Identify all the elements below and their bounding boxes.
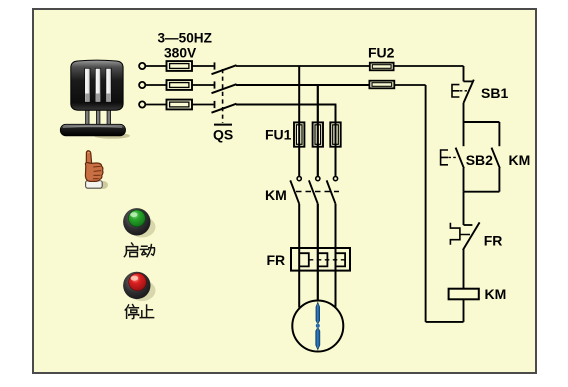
KM main contact 3 blade: [327, 180, 336, 203]
svg-text:QS: QS: [213, 126, 233, 142]
wire KM aux upper: [498, 122, 500, 146]
svg-text:KM: KM: [485, 286, 507, 302]
branch bottom wire: [464, 191, 500, 193]
fuse FU1-1: [294, 122, 304, 146]
KM main contact 1 blade: [290, 180, 299, 203]
wire coil to loop bottom: [463, 299, 465, 322]
wire L1 FU2 to control corner: [394, 65, 464, 67]
wire L2 FU2 to loop corner: [394, 84, 425, 86]
wire L1 fuse to QS: [192, 65, 214, 67]
label 停止 (stop): [125, 305, 153, 319]
fuse FU2 upper: [370, 63, 394, 71]
control wire: corner down to SB1: [463, 66, 465, 81]
wire FR to motor (right): [335, 271, 337, 307]
fuse FU1-3: [330, 122, 340, 146]
svg-text:FR: FR: [484, 233, 503, 249]
branch top wire: [464, 121, 500, 123]
SB1 push actuator: [452, 85, 459, 97]
SB2 blade: [456, 148, 464, 169]
wire SB1 to branch top: [463, 103, 465, 122]
KM linkage dashed line: [296, 191, 339, 193]
wire L2 fuse to QS: [192, 84, 214, 86]
phase L2 terminal: [139, 82, 145, 88]
phase L1 terminal: [139, 63, 145, 69]
wire drop U-phase to FU1: [298, 66, 300, 122]
FR contact blade: [463, 222, 480, 250]
svg-text:KM: KM: [509, 152, 531, 168]
wire L1 QS to FU2: [236, 65, 370, 67]
wire L1 to fuse: [145, 65, 166, 67]
wire KM2 to FR: [317, 204, 319, 248]
wire through FR element 1: [298, 248, 300, 271]
FR element 3 bump: [336, 253, 346, 266]
wire through FU1 fuse 1: [298, 122, 300, 176]
QS pole 1 blade: [212, 65, 237, 74]
FR element 1 bump: [299, 253, 309, 266]
SB1 actuator dashed link: [460, 90, 467, 92]
coil KM: [449, 289, 479, 300]
SB2 actuator dashed link: [448, 156, 456, 158]
loop return wire up to L2: [425, 85, 427, 322]
FR heater box: [291, 248, 350, 271]
svg-text:380V: 380V: [164, 46, 197, 61]
wire FR contact to coil: [463, 249, 465, 289]
start button (green): [123, 208, 155, 237]
FR element 2 bump: [318, 253, 328, 266]
svg-text:3—50HZ: 3—50HZ: [158, 31, 212, 46]
KM main contact 2 fixed point: [316, 177, 320, 181]
wire KM3 to FR: [335, 204, 337, 248]
knife-switch icon: [60, 60, 130, 139]
wire through FU1 fuse 3: [335, 122, 337, 176]
wire L3 fuse to QS: [192, 104, 214, 106]
SB2 push actuator: [441, 150, 448, 165]
wire L3 to fuse: [145, 104, 166, 106]
QS pole 1 fixed contact tick: [214, 62, 216, 69]
wire KM aux lower: [498, 168, 500, 192]
pointing-hand icon: [85, 151, 108, 189]
svg-text:FU1: FU1: [265, 127, 292, 143]
fuse FU2 lower: [369, 81, 394, 89]
wire FR to motor (left): [298, 271, 300, 308]
motor M: [292, 301, 343, 352]
KM main contact 3 fixed point: [333, 177, 337, 181]
SB1 fixed contact tick: [464, 80, 473, 82]
svg-text:FR: FR: [267, 252, 286, 268]
KM main contact 2 blade: [309, 180, 318, 203]
fuse L1 (supply): [167, 61, 193, 71]
QS pole 3 fixed contact tick: [214, 101, 216, 108]
FR linkage dashed line: [309, 259, 345, 261]
svg-text:KM: KM: [265, 187, 287, 203]
KM aux blade: [492, 148, 500, 169]
wire drop W-phase to FU1: [335, 105, 337, 123]
wire L2 QS to FU2: [236, 84, 369, 86]
wire branch bottom to FR contact: [463, 192, 465, 225]
wire KM1 to FR: [298, 204, 300, 248]
svg-text:SB2: SB2: [466, 152, 493, 168]
wire L3 QS to drop: [236, 104, 336, 106]
stop button (red): [123, 272, 155, 301]
KM main contact 1 fixed point: [297, 177, 301, 181]
wire drop V-phase to FU1: [317, 85, 319, 122]
fuse L2 (supply): [167, 80, 193, 90]
FR contact fixed tick: [464, 224, 473, 226]
wire SB2 to branch bottom: [463, 168, 465, 192]
loop bottom wire: [426, 321, 464, 323]
QS pole 2 blade: [212, 84, 237, 93]
wire L2 to fuse: [145, 84, 166, 86]
QS pole 2 fixed contact tick: [214, 81, 216, 88]
FR contact thermal actuator: [450, 223, 470, 245]
label 启动 (start): [124, 243, 154, 257]
wire through FU1 fuse 2: [317, 122, 319, 176]
QS linkage end bar: [214, 124, 232, 126]
fuse L3 (supply): [167, 100, 193, 110]
wire through FR element 2: [317, 248, 319, 271]
fuse FU1-2: [313, 122, 323, 146]
wire FR to motor (mid): [317, 271, 319, 301]
QS pole 3 blade: [212, 104, 237, 113]
svg-text:SB1: SB1: [481, 85, 508, 101]
svg-text:FU2: FU2: [368, 44, 395, 60]
motor rotor glyph: [316, 303, 320, 350]
QS linkage dashed line: [222, 69, 224, 123]
wire branch top to SB2: [463, 122, 465, 146]
SB1 blade: [464, 80, 474, 103]
phase L3 terminal: [139, 101, 145, 107]
wire through FR element 3: [335, 248, 337, 271]
